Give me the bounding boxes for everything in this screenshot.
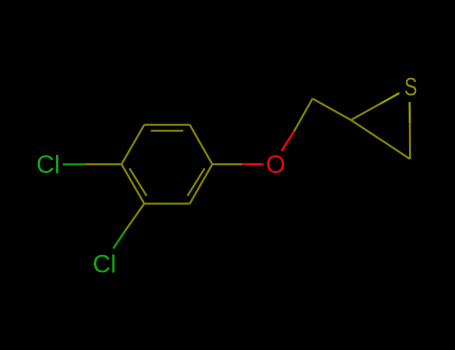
svg-text:Cl: Cl: [93, 250, 117, 278]
wire thiirane S-C2 (sulfur half): [380, 93, 399, 104]
wire ring edge upper-right: [190, 125, 213, 164]
wire double bond inner lower-left: [130, 168, 147, 196]
wire thiirane S-C3 (carbon half): [409, 123, 411, 159]
wire ring edge upper-left: [122, 125, 145, 164]
benzene ring outline: [122, 125, 213, 204]
wire thiirane S-C2 (carbon half): [351, 104, 380, 120]
svg-text:Cl: Cl: [36, 151, 60, 179]
wire ring edge top: [144, 124, 190, 126]
wire Cl1 to ring (carbon half): [84, 163, 121, 165]
wire Cl1 to ring (green half): [63, 163, 84, 165]
wire ring edge lower-right: [190, 164, 213, 203]
svg-text:O: O: [266, 151, 285, 179]
wire Cl2 to ring (green half): [113, 231, 125, 248]
wire ring to O (carbon half): [212, 163, 242, 165]
wire Cl2 to ring (carbon half): [125, 204, 145, 232]
wire thiirane S-C3 (sulfur half): [409, 102, 411, 123]
wire ring edge lower-left: [122, 164, 145, 203]
wire thiirane C2-C3: [351, 120, 410, 159]
wire O to CH2 (carbon half): [294, 99, 313, 132]
wire O to CH2 (red half): [282, 131, 295, 151]
wire ring to O (red half): [242, 163, 263, 165]
wire double bond inner lower-right: [188, 168, 205, 196]
wire CH2 to thiirane C2: [313, 99, 351, 120]
wire double bond inner top: [151, 130, 184, 132]
wire ring edge bottom: [144, 203, 190, 205]
svg-text:S: S: [404, 73, 417, 101]
